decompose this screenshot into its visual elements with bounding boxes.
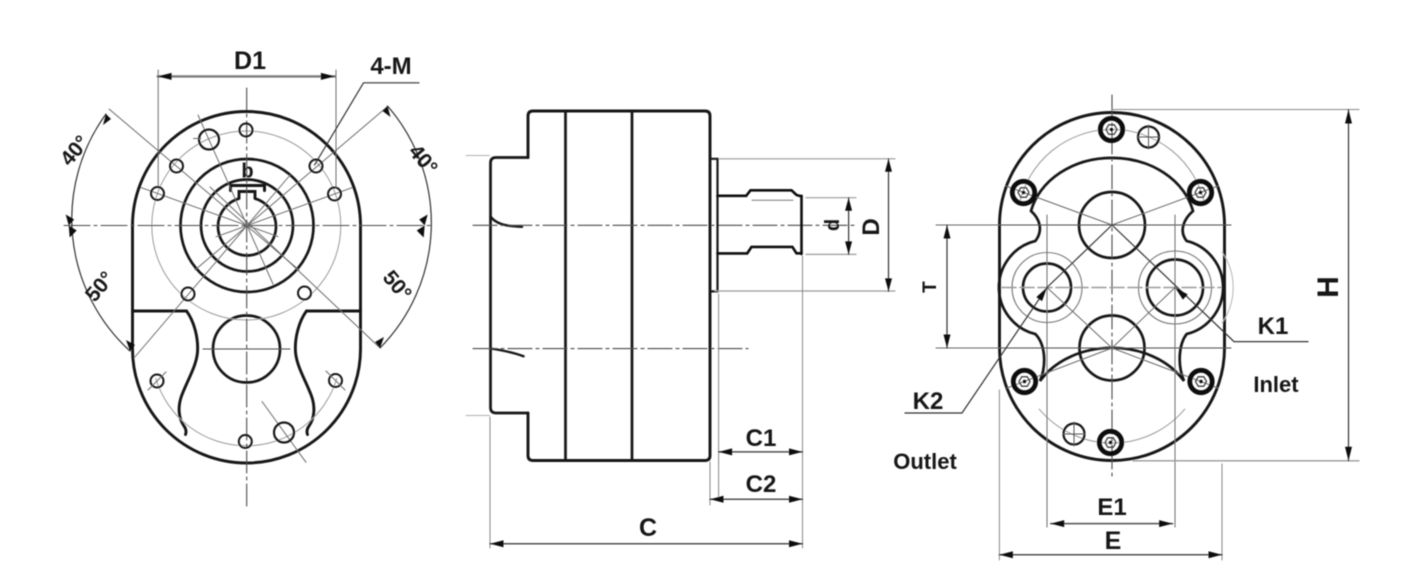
svg-text:E: E	[1105, 527, 1122, 555]
dimension T line	[946, 225, 948, 348]
bolt circle (light) around top center	[152, 131, 341, 320]
centerline vertical	[1111, 95, 1113, 478]
leader K2 through outlet center	[905, 225, 1112, 413]
radial line 40 deg upper-right	[195, 107, 387, 270]
svg-text:40°: 40°	[56, 131, 94, 170]
bolt upper-right	[1189, 181, 1211, 203]
C1 dimension line	[719, 451, 803, 453]
line bottom gear center to inlet port	[1112, 288, 1175, 349]
top gear bore	[1079, 192, 1145, 258]
inlet port boss circle	[1139, 251, 1212, 324]
body waist S-curve left	[179, 311, 198, 435]
svg-text:C: C	[639, 514, 657, 542]
bolt hole upper-left 40	[170, 160, 183, 173]
pin hole cross	[1137, 125, 1160, 149]
radial line to vent hole	[198, 115, 273, 284]
arrow at left arc top	[103, 114, 111, 125]
E1 dimension line	[1051, 523, 1173, 525]
svg-text:E1: E1	[1097, 494, 1126, 521]
line bottom gear center to outlet port	[1047, 288, 1112, 349]
pump body outline (stadium)	[133, 111, 361, 462]
bolt upper-left	[1012, 181, 1034, 203]
radial line 20 deg right	[216, 188, 352, 237]
bottom gear bore	[1080, 316, 1145, 381]
svg-text:40°: 40°	[404, 140, 442, 179]
C extension line	[489, 417, 491, 548]
port horizontal centerline	[1002, 287, 1221, 289]
flange step fillet upper	[491, 217, 523, 227]
gear chamber inner contour	[999, 158, 1223, 381]
svg-text:d: d	[822, 219, 844, 231]
svg-text:K2: K2	[913, 388, 944, 415]
bolt lower-right	[1190, 370, 1212, 392]
svg-text:50°: 50°	[378, 266, 416, 305]
E extension lines	[999, 390, 1222, 560]
svg-text:H: H	[1312, 276, 1345, 298]
C1 arrows	[719, 448, 803, 455]
pin hole top-right	[1138, 127, 1159, 148]
bolt hole lower-left 50	[182, 288, 195, 301]
dimension T extension lines	[936, 225, 999, 348]
bearing circle (middle boss)	[201, 180, 293, 272]
flange step notch right	[307, 310, 361, 313]
centerline horizontal bottom	[203, 348, 290, 350]
svg-text:K1: K1	[1258, 313, 1289, 340]
D1 extension lines	[158, 70, 336, 188]
dimension H extension top	[1112, 109, 1359, 111]
outlet port K2	[1023, 264, 1071, 312]
vent hole cross marks	[194, 138, 202, 140]
radial line 40 deg upper-left	[109, 109, 299, 270]
port vertical centerline K2	[1046, 215, 1048, 527]
bolt hole left 20	[151, 187, 164, 200]
dimension D line	[888, 159, 890, 292]
arrow right arc at horizontal	[417, 215, 428, 238]
pump body outline (stadium)	[1000, 113, 1225, 461]
shaft end extension line	[802, 256, 804, 548]
radial to upper-left bolt	[1006, 186, 1112, 225]
svg-text:50°: 50°	[81, 267, 119, 306]
centerline bottom axis	[938, 347, 1231, 349]
svg-text:C1: C1	[746, 425, 777, 452]
pin hole bottom-right	[274, 423, 294, 443]
radial line 20 deg left	[141, 188, 278, 237]
arrow left arc at horizontal	[66, 215, 77, 238]
mark bottom-left hole	[148, 372, 166, 390]
radial line to bottom-right pin hole	[262, 402, 306, 463]
centerline vertical	[246, 88, 248, 510]
d arrows	[845, 198, 852, 255]
H arrows	[1345, 110, 1352, 461]
pin hole bottom-left	[1064, 424, 1085, 445]
mounting flange strip	[491, 158, 529, 414]
centerline horizontal top	[64, 225, 432, 227]
shaft hub boss	[710, 159, 718, 292]
front cover joint line	[564, 112, 567, 461]
shaft top profile with key	[718, 190, 802, 196]
svg-text:D1: D1	[234, 47, 266, 75]
leader K1 through inlet center	[1112, 225, 1308, 342]
lower gear axis centerline	[473, 348, 748, 350]
shaft bottom profile with groove	[718, 247, 802, 254]
E dimension line	[999, 554, 1222, 556]
outlet port boss circle	[1012, 253, 1082, 323]
D1 arrows	[158, 73, 335, 80]
arrow at right arc bottom	[375, 337, 384, 348]
pin hole cross	[1063, 422, 1085, 446]
bottom gear bore	[213, 316, 280, 383]
svg-text:D: D	[858, 218, 885, 235]
pump body block outline	[528, 111, 710, 461]
svg-text:4-M: 4-M	[370, 53, 411, 80]
dimension H line	[1348, 110, 1350, 461]
svg-text:b: b	[241, 161, 253, 183]
shaft axis centerline	[473, 224, 855, 226]
T arrows	[944, 225, 951, 348]
E1 arrows	[1051, 520, 1173, 527]
keyway slot	[239, 192, 255, 199]
tab edge extension line upper	[466, 155, 490, 157]
body waist S-curve right	[295, 311, 314, 435]
svg-text:Inlet: Inlet	[1253, 372, 1299, 397]
C2 extension line	[709, 462, 711, 505]
spigot circle (outer boss)	[181, 159, 314, 292]
port vertical centerline K1	[1174, 215, 1176, 527]
rear cover joint line	[631, 112, 634, 461]
C2 arrows	[710, 496, 803, 503]
radial to lower-right bolt	[1112, 348, 1218, 388]
port spot-face arc right	[1222, 252, 1233, 323]
bolt circle arc top (light)	[1019, 129, 1205, 205]
key seat line	[752, 199, 793, 201]
shaft bore with keyway gap	[218, 199, 276, 256]
K1 arrow at port center	[1175, 288, 1188, 300]
bolt hole right 20	[328, 188, 341, 201]
C1 extension line	[718, 294, 720, 500]
bolt hole top center	[240, 124, 253, 137]
flange step notch left	[133, 310, 187, 313]
vent hole top-left	[199, 130, 219, 150]
dimension D extension lines	[715, 159, 895, 291]
keyway width dimension bar b	[231, 186, 265, 191]
bolt hole bottom-left 20	[151, 375, 164, 388]
bolt hole lower-right 50	[298, 287, 311, 300]
bolt top center	[1100, 118, 1122, 140]
D arrows	[885, 159, 892, 292]
angle dimension arc left	[72, 114, 130, 351]
leader 4-M	[315, 83, 420, 165]
svg-text:T: T	[920, 281, 941, 293]
bolt hole bottom center	[239, 435, 252, 448]
shaft end face	[800, 196, 803, 254]
radial line 50 deg lower-right	[210, 187, 379, 347]
dimension D1 line	[158, 75, 335, 77]
dimension d extension lines	[806, 198, 856, 255]
K2 arrow at port center	[1036, 288, 1047, 302]
angle dimension arc right	[380, 106, 431, 348]
bolt lower-left	[1013, 370, 1035, 392]
flange step fillet lower	[491, 349, 524, 357]
inlet port K1	[1147, 260, 1203, 316]
radial line 50 deg lower-left	[134, 174, 291, 358]
bolt circle arc (light) around bottom center	[156, 379, 337, 446]
bolt hole bottom-right 20	[329, 374, 342, 387]
bolt hole upper-right 40	[310, 160, 323, 173]
arrow at left arc bottom	[126, 340, 135, 351]
C arrows	[490, 540, 803, 547]
E arrows	[999, 551, 1222, 558]
svg-text:C2: C2	[746, 471, 777, 498]
svg-text:Outlet: Outlet	[893, 449, 957, 474]
C dimension line	[490, 543, 803, 545]
centerline top axis	[938, 224, 1231, 226]
bolt circle arc bottom (light)	[1039, 409, 1185, 443]
tab edge extension line lower	[466, 415, 490, 417]
C2 dimension line	[710, 498, 803, 500]
bolt bottom center	[1099, 431, 1121, 453]
radial to upper-right bolt	[1112, 186, 1218, 225]
dimension H extension bottom	[1133, 460, 1359, 462]
dimension d line	[848, 198, 850, 255]
mark bottom-right hole	[326, 371, 345, 390]
arrow at right arc top	[383, 106, 391, 117]
radial to lower-left bolt	[1007, 348, 1112, 388]
